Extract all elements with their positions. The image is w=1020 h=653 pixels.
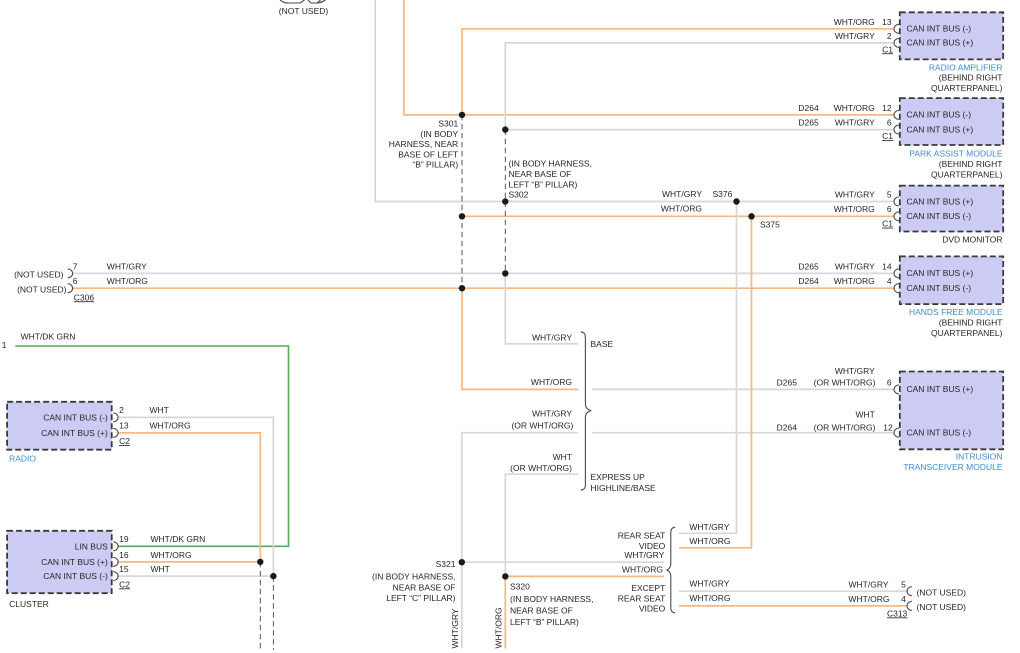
svg-text:C313: C313 <box>887 608 908 618</box>
connector pin arc PARK ASSIST pin 12 <box>894 110 899 119</box>
svg-text:WHT/GRY: WHT/GRY <box>689 579 729 589</box>
svg-text:CAN INT BUS (-): CAN INT BUS (-) <box>907 24 972 34</box>
connector pin arc RADIO pin 2 <box>113 413 118 422</box>
wire WHT to INTRUSION pin 12 <box>592 432 895 434</box>
svg-text:CAN INT BUS (+): CAN INT BUS (+) <box>907 196 974 206</box>
svg-text:C1: C1 <box>882 219 893 229</box>
svg-text:(NOT USED): (NOT USED) <box>279 6 329 16</box>
splice line S302 dashed <box>504 130 506 274</box>
svg-text:WHT/GRY: WHT/GRY <box>532 409 572 419</box>
svg-text:HIGHLINE/BASE: HIGHLINE/BASE <box>591 483 657 493</box>
svg-text:WHT/ORG: WHT/ORG <box>150 420 191 430</box>
module box HANDS FREE MODULE <box>900 256 1003 304</box>
svg-text:DVD MONITOR: DVD MONITOR <box>942 234 1002 244</box>
svg-text:(BEHIND RIGHT: (BEHIND RIGHT <box>939 159 1003 169</box>
svg-text:LEFT “B” PILLAR): LEFT “B” PILLAR) <box>509 180 578 190</box>
partial connector symbol at top (cut off) <box>280 0 326 3</box>
svg-text:WHT: WHT <box>150 405 169 415</box>
svg-text:QUARTERPANEL): QUARTERPANEL) <box>931 83 1003 93</box>
connector pin arc C313 pin 5 <box>907 587 912 596</box>
svg-text:WHT/ORG: WHT/ORG <box>622 564 663 574</box>
junction S302 upper <box>502 126 508 132</box>
wire WHT/GRY C306 pin 7 to HANDS FREE pin 14 <box>73 272 895 274</box>
connector pin arc HANDS FREE pin 4 <box>894 284 899 293</box>
junction S320 <box>502 573 508 579</box>
svg-text:WHT/ORG: WHT/ORG <box>107 276 148 286</box>
svg-text:WHT/ORG: WHT/ORG <box>531 377 572 387</box>
module box CLUSTER <box>7 531 112 593</box>
svg-text:WHT/ORG: WHT/ORG <box>661 204 702 214</box>
connector pin arc CLUSTER pin 15 <box>113 572 118 581</box>
wire WHT/ORG RADIO pin 13 to CLUSTER pin 16 <box>118 433 260 562</box>
svg-text:WHT/GRY: WHT/GRY <box>835 31 875 41</box>
svg-text:C2: C2 <box>119 579 130 589</box>
svg-text:WHT: WHT <box>855 410 874 420</box>
svg-text:QUARTERPANEL): QUARTERPANEL) <box>931 328 1003 338</box>
svg-text:15: 15 <box>119 564 129 574</box>
junction S376 <box>733 198 739 204</box>
svg-text:C1: C1 <box>882 131 893 141</box>
connector pin arc INTRUSION pin 12 <box>894 428 899 437</box>
svg-text:PARK ASSIST MODULE: PARK ASSIST MODULE <box>909 149 1003 159</box>
svg-text:WHT/GRY: WHT/GRY <box>624 550 664 560</box>
svg-text:16: 16 <box>119 550 129 560</box>
svg-text:WHT/ORG: WHT/ORG <box>689 593 730 603</box>
svg-text:4: 4 <box>901 594 906 604</box>
svg-text:D264: D264 <box>798 103 819 113</box>
svg-text:WHT/GRY: WHT/GRY <box>689 522 729 532</box>
svg-text:CAN INT BUS (-): CAN INT BUS (-) <box>907 211 972 221</box>
svg-text:EXPRESS UP: EXPRESS UP <box>591 472 646 482</box>
svg-text:5: 5 <box>887 190 892 200</box>
connector pin arc PARK ASSIST pin 6 <box>894 125 899 134</box>
wire WHT/GRY to RADIO AMPLIFIER pin 2 <box>505 43 894 130</box>
svg-text:NEAR BASE OF: NEAR BASE OF <box>510 606 573 616</box>
svg-text:NEAR BASE OF: NEAR BASE OF <box>393 582 456 592</box>
svg-text:WHT/GRY: WHT/GRY <box>450 608 460 648</box>
wire WHT/ORG to C313 pin 4 <box>679 605 907 607</box>
wire WHT/GRY from S376 to rear seat video group <box>679 202 737 534</box>
svg-text:CAN INT BUS (+): CAN INT BUS (+) <box>907 268 974 278</box>
svg-text:(IN BODY HARNESS,: (IN BODY HARNESS, <box>509 159 592 169</box>
svg-text:CAN INT BUS (+): CAN INT BUS (+) <box>907 124 974 134</box>
svg-text:LEFT “B” PILLAR): LEFT “B” PILLAR) <box>510 617 579 627</box>
connector pin arc C306 pin 7 <box>68 269 73 278</box>
dashed continuation below CLUSTER pin 15 junction <box>272 576 274 650</box>
junction on C306 pin 7 wire <box>502 270 508 276</box>
brace grouping REAR SEAT VIDEO variants <box>667 527 675 613</box>
svg-text:WHT/ORG: WHT/ORG <box>494 607 504 648</box>
wire from S321 to rear brace <box>462 561 664 563</box>
svg-text:WHT/GRY: WHT/GRY <box>107 261 147 271</box>
svg-text:WHT/ORG: WHT/ORG <box>834 276 875 286</box>
svg-text:WHT/ORG: WHT/ORG <box>834 17 875 27</box>
svg-text:D265: D265 <box>798 118 819 128</box>
connector pin arc CLUSTER pin 19 <box>113 542 118 551</box>
connector pin arc INTRUSION pin 6 <box>894 385 899 394</box>
svg-text:D265: D265 <box>798 261 819 271</box>
connector pin arc DVD MONITOR pin 5 <box>894 197 899 206</box>
svg-text:13: 13 <box>119 420 129 430</box>
svg-text:WHT/ORG: WHT/ORG <box>151 550 192 560</box>
svg-text:WHT/GRY: WHT/GRY <box>835 366 875 376</box>
junction S375 <box>748 213 754 219</box>
svg-text:WHT/GRY: WHT/GRY <box>662 189 702 199</box>
module box INTRUSION TRANSCEIVER MODULE <box>900 372 1003 450</box>
connector pin arc RADIO pin 13 <box>113 428 118 437</box>
svg-text:19: 19 <box>119 534 129 544</box>
svg-text:S302: S302 <box>509 190 529 200</box>
wire WHT/DK GRN pin 1 to CLUSTER pin 19 <box>15 346 288 546</box>
connector pin arc DVD MONITOR pin 6 <box>894 212 899 221</box>
svg-text:WHT: WHT <box>151 564 170 574</box>
wire WHT/GRY BASE branch row 1 <box>505 273 578 343</box>
wire WHT/ORG trunk from top to PARK ASSIST pin 12 <box>404 0 895 115</box>
svg-text:REAR SEAT: REAR SEAT <box>618 594 666 604</box>
svg-text:REAR SEAT: REAR SEAT <box>618 531 666 541</box>
junction on DVD pin 6 wire <box>459 213 465 219</box>
svg-text:C306: C306 <box>74 292 95 302</box>
svg-text:WHT/GRY: WHT/GRY <box>849 579 889 589</box>
svg-text:CAN INT BUS (+): CAN INT BUS (+) <box>907 38 974 48</box>
junction CLUSTER pin 16 <box>257 559 263 565</box>
wire WHT/ORG from S320 to rear brace <box>505 575 664 577</box>
svg-text:(IN BODY: (IN BODY <box>420 129 458 139</box>
wire WHT/GRY to PARK ASSIST pin 6 <box>505 129 894 131</box>
svg-text:6: 6 <box>887 118 892 128</box>
wire WHT RADIO pin 2 to CLUSTER pin 15 <box>118 417 273 576</box>
svg-text:VIDEO: VIDEO <box>639 603 666 613</box>
svg-text:TRANSCEIVER MODULE: TRANSCEIVER MODULE <box>903 462 1003 472</box>
svg-text:12: 12 <box>883 422 893 432</box>
svg-text:2: 2 <box>119 405 124 415</box>
svg-text:“B” PILLAR): “B” PILLAR) <box>412 160 458 170</box>
svg-text:NEAR BASE OF: NEAR BASE OF <box>509 169 572 179</box>
svg-text:(NOT USED): (NOT USED) <box>917 602 967 612</box>
svg-text:BASE: BASE <box>591 339 614 349</box>
svg-text:WHT/GRY: WHT/GRY <box>835 261 875 271</box>
svg-text:CAN INT BUS (-): CAN INT BUS (-) <box>907 110 972 120</box>
svg-text:LIN BUS: LIN BUS <box>75 541 108 551</box>
svg-text:6: 6 <box>887 377 892 387</box>
connector pin arc C306 pin 6 <box>68 284 73 293</box>
splice line S301 dashed <box>461 115 463 288</box>
svg-text:WHT/ORG: WHT/ORG <box>848 594 889 604</box>
svg-text:D265: D265 <box>777 377 798 387</box>
junction S302 lower <box>502 198 508 204</box>
svg-text:(OR WHT/ORG): (OR WHT/ORG) <box>510 463 572 473</box>
svg-text:(NOT USED): (NOT USED) <box>17 284 67 294</box>
svg-text:(NOT USED): (NOT USED) <box>917 587 967 597</box>
svg-text:CAN INT BUS (-): CAN INT BUS (-) <box>907 428 972 438</box>
wire WHT/GRY to INTRUSION pin 6 <box>592 388 895 390</box>
svg-text:HARNESS, NEAR: HARNESS, NEAR <box>389 139 458 149</box>
wire WHT/ORG to DVD MONITOR pin 6 <box>462 215 895 217</box>
svg-text:LEFT “C” PILLAR): LEFT “C” PILLAR) <box>386 593 455 603</box>
svg-text:CAN INT BUS (-): CAN INT BUS (-) <box>907 283 972 293</box>
svg-text:2: 2 <box>887 31 892 41</box>
module box RADIO AMPLIFIER <box>900 12 1003 59</box>
svg-text:(NOT USED): (NOT USED) <box>14 270 64 280</box>
svg-text:CAN INT BUS (+): CAN INT BUS (+) <box>41 557 108 567</box>
svg-text:S321: S321 <box>436 559 456 569</box>
svg-text:CAN INT BUS (+): CAN INT BUS (+) <box>41 428 108 438</box>
svg-text:(OR WHT/ORG): (OR WHT/ORG) <box>814 422 876 432</box>
module box DVD MONITOR <box>900 186 1003 232</box>
svg-text:6: 6 <box>73 276 78 286</box>
junction on C306 pin 6 wire <box>459 285 465 291</box>
svg-text:WHT/GRY: WHT/GRY <box>532 333 572 343</box>
svg-text:13: 13 <box>882 17 892 27</box>
wire WHT brace row 4 down to S320 <box>505 474 578 576</box>
svg-text:(BEHIND RIGHT: (BEHIND RIGHT <box>939 318 1003 328</box>
wire WHT/GRY brace row 3 down to S321 and below <box>462 433 578 649</box>
svg-text:RADIO: RADIO <box>9 453 36 463</box>
wire WHT/ORG below S320 <box>504 576 506 648</box>
svg-text:RADIO AMPLIFIER: RADIO AMPLIFIER <box>929 62 1003 72</box>
svg-text:S320: S320 <box>510 582 530 592</box>
svg-text:BASE OF LEFT: BASE OF LEFT <box>398 149 458 159</box>
svg-text:S375: S375 <box>760 219 780 229</box>
wire WHT/ORG to RADIO AMPLIFIER pin 13 <box>462 29 895 115</box>
module box PARK ASSIST MODULE <box>900 98 1003 145</box>
svg-text:14: 14 <box>882 261 892 271</box>
svg-text:(BEHIND RIGHT: (BEHIND RIGHT <box>939 73 1003 83</box>
svg-text:WHT/ORG: WHT/ORG <box>689 536 730 546</box>
svg-text:WHT/ORG: WHT/ORG <box>834 204 875 214</box>
wire WHT/GRY trunk from top to DVD MONITOR pin 5 <box>375 0 894 202</box>
svg-text:CAN INT BUS (+): CAN INT BUS (+) <box>907 384 974 394</box>
brace grouping BASE / EXPRESS UP variants <box>581 332 591 490</box>
svg-text:S376: S376 <box>713 189 733 199</box>
wire WHT/ORG from S375 to rear seat video group <box>679 216 752 548</box>
svg-text:INTRUSION: INTRUSION <box>956 452 1003 462</box>
svg-text:HANDS FREE MODULE: HANDS FREE MODULE <box>909 307 1003 317</box>
svg-text:4: 4 <box>887 276 892 286</box>
connector pin arc RADIO AMPLIFIER pin 13 <box>894 24 899 33</box>
svg-text:WHT/GRY: WHT/GRY <box>835 118 875 128</box>
svg-text:C2: C2 <box>119 436 130 446</box>
dashed continuation below CLUSTER pin 16 junction <box>259 562 261 650</box>
wire WHT/GRY to C313 pin 5 <box>679 590 907 592</box>
module box RADIO <box>7 402 112 450</box>
svg-text:(IN BODY HARNESS,: (IN BODY HARNESS, <box>372 572 455 582</box>
svg-text:WHT/GRY: WHT/GRY <box>835 190 875 200</box>
svg-text:(OR WHT/ORG): (OR WHT/ORG) <box>511 421 573 431</box>
svg-text:CLUSTER: CLUSTER <box>9 599 49 609</box>
junction CLUSTER pin 15 <box>270 573 276 579</box>
connector pin arc CLUSTER pin 16 <box>113 557 118 566</box>
svg-text:CAN INT BUS (-): CAN INT BUS (-) <box>43 412 108 422</box>
junction S301 <box>459 112 465 118</box>
svg-text:6: 6 <box>887 204 892 214</box>
svg-text:D264: D264 <box>798 276 819 286</box>
svg-text:CAN INT BUS (-): CAN INT BUS (-) <box>43 571 108 581</box>
svg-text:WHT/DK GRN: WHT/DK GRN <box>151 534 206 544</box>
svg-text:D264: D264 <box>777 422 798 432</box>
svg-text:WHT/ORG: WHT/ORG <box>834 103 875 113</box>
svg-text:(OR WHT/ORG): (OR WHT/ORG) <box>814 377 876 387</box>
svg-text:S301: S301 <box>438 119 458 129</box>
svg-text:7: 7 <box>73 261 78 271</box>
svg-text:12: 12 <box>882 103 892 113</box>
svg-text:EXCEPT: EXCEPT <box>631 583 665 593</box>
svg-text:5: 5 <box>901 579 906 589</box>
connector pin arc C313 pin 4 <box>907 601 912 610</box>
wire WHT/ORG branch to brace row 2 <box>462 288 578 389</box>
svg-text:(IN BODY HARNESS,: (IN BODY HARNESS, <box>510 594 593 604</box>
svg-text:WHT/DK GRN: WHT/DK GRN <box>21 331 76 341</box>
wire WHT/ORG C306 pin 6 to HANDS FREE pin 4 <box>73 287 895 289</box>
svg-text:WHT: WHT <box>553 452 572 462</box>
connector pin arc HANDS FREE pin 14 <box>894 269 899 278</box>
connector pin arc RADIO AMPLIFIER pin 2 <box>894 38 899 47</box>
svg-text:QUARTERPANEL): QUARTERPANEL) <box>931 170 1003 180</box>
junction S321 <box>459 559 465 565</box>
svg-text:1: 1 <box>2 340 7 350</box>
svg-text:C1: C1 <box>882 44 893 54</box>
